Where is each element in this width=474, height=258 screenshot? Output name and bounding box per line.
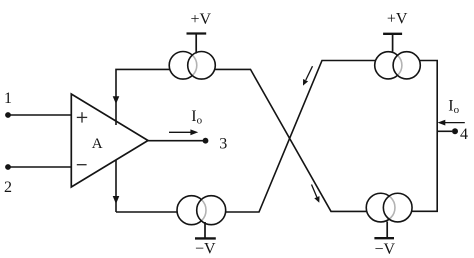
svg-text:+V: +V <box>387 11 408 28</box>
svg-text:A: A <box>92 136 103 152</box>
svg-text:+V: +V <box>191 11 212 28</box>
svg-text:Io: Io <box>191 108 202 127</box>
svg-text:−V: −V <box>195 240 216 257</box>
svg-text:4: 4 <box>460 126 468 143</box>
svg-text:2: 2 <box>4 179 12 196</box>
svg-text:3: 3 <box>219 136 227 153</box>
svg-text:−V: −V <box>375 241 396 258</box>
svg-text:Io: Io <box>448 97 459 116</box>
svg-text:1: 1 <box>4 90 12 107</box>
